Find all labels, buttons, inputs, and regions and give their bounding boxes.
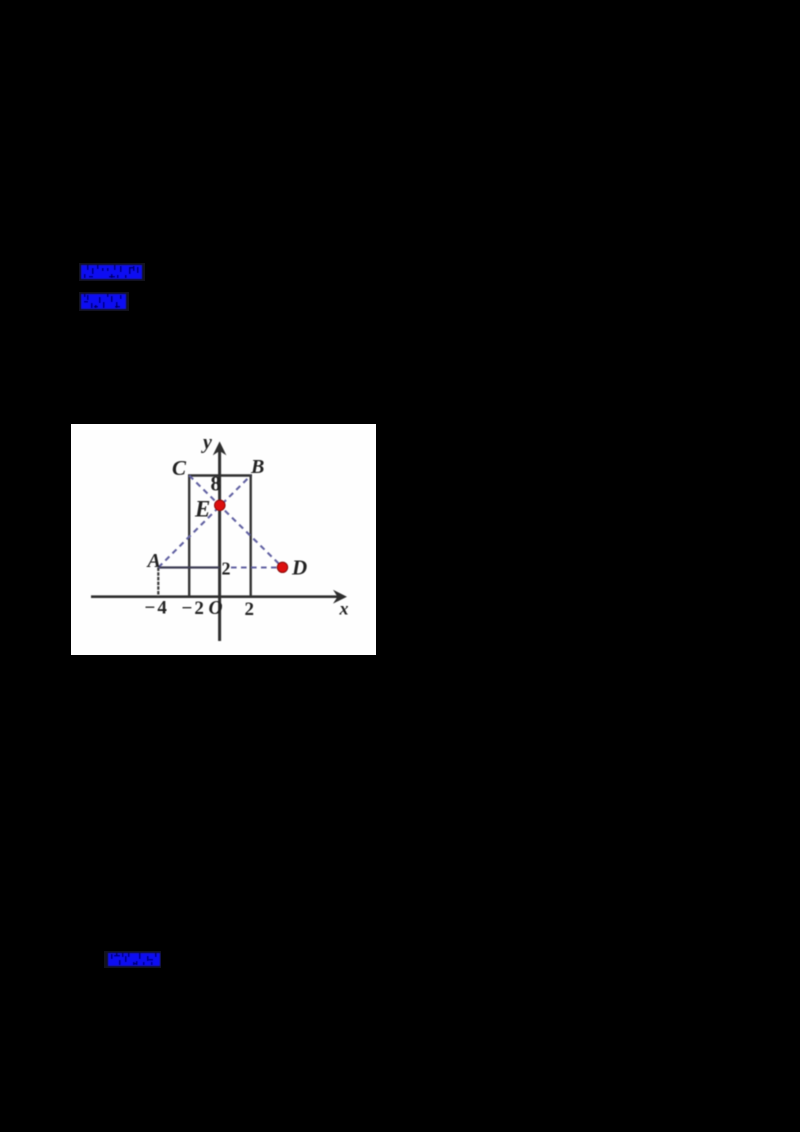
rectangle right edge (x=2) [249,476,251,597]
segment from A down to x-axis (x=-4) [157,568,159,597]
svg-text:B: B [250,456,264,478]
svg-text:O: O [209,598,223,619]
y-axis [213,441,227,641]
answer-link block 3 (blue highlighted text) [104,951,161,968]
svg-text:8: 8 [211,471,222,495]
point D (red dot) [277,562,287,572]
dashed segment y-axis to D (y=2) [231,566,277,568]
svg-text:2: 2 [245,599,255,620]
dashed diagonal C to D [189,476,282,568]
svg-text:E: E [194,497,210,522]
svg-text:x: x [339,599,349,619]
x-axis [91,590,347,604]
svg-text:C: C [172,456,187,480]
svg-text:y: y [201,432,212,454]
svg-text:−4: −4 [145,598,169,619]
rectangle left edge (x=-2) [188,476,190,597]
svg-text:−2: −2 [182,598,206,619]
point E (red dot) [215,500,226,511]
solid segment A to y-axis (y=2) [158,566,219,568]
figure: coordinate-plane diagram on white panel [71,424,376,655]
answer-link block 2 (blue highlighted text) [79,292,129,311]
svg-text:2: 2 [222,559,231,579]
dashed diagonal A to B [158,476,250,568]
svg-text:D: D [291,556,307,580]
rectangle top edge CB (y=8) [188,474,252,477]
svg-text:A: A [146,550,161,572]
answer-link block 1 (blue highlighted text) [79,263,145,281]
